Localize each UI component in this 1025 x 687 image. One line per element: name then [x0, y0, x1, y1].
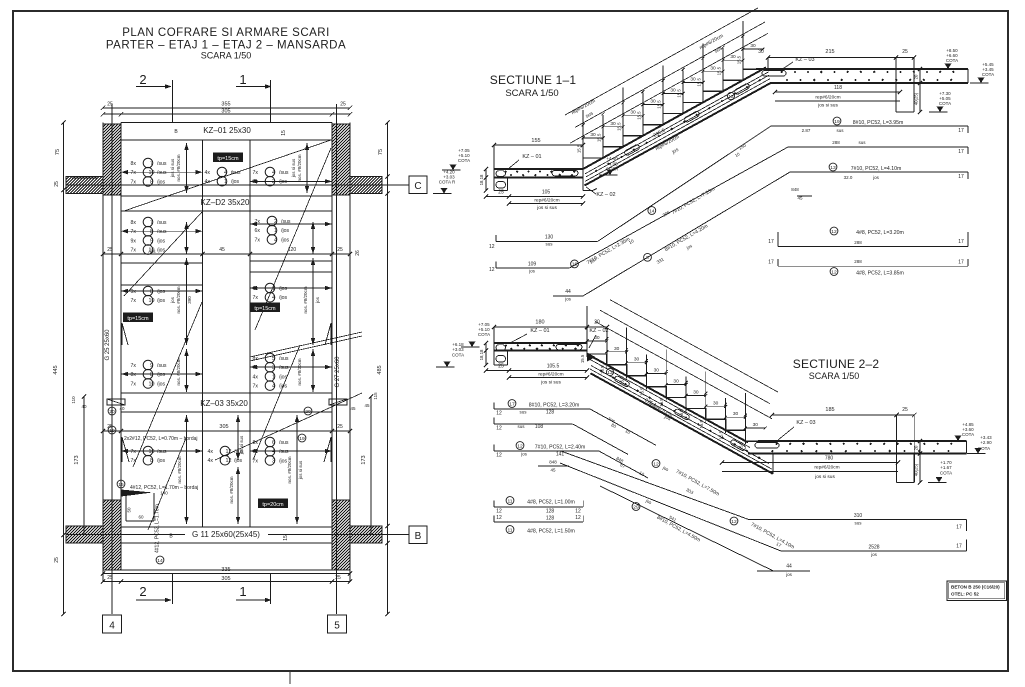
- svg-text:15.5: 15.5: [717, 66, 722, 75]
- svg-text:25: 25: [107, 247, 113, 253]
- svg-text:/jos: /jos: [148, 249, 156, 254]
- svg-text:29: 29: [633, 504, 639, 510]
- svg-text:jos si sus: jos si sus: [298, 460, 303, 480]
- svg-text:30: 30: [710, 65, 716, 71]
- svg-text:/sus: /sus: [279, 170, 289, 176]
- svg-text:4: 4: [272, 449, 275, 455]
- svg-text:10: 10: [149, 449, 155, 455]
- svg-text:17: 17: [956, 525, 962, 531]
- sec1 left dim 18,18: [485, 169, 487, 191]
- svg-text:75: 75: [55, 149, 61, 155]
- plan diagonal right flight: [253, 345, 300, 460]
- svg-text:173: 173: [361, 455, 367, 464]
- svg-text:KZ – 01: KZ – 01: [522, 154, 541, 160]
- sec1 flight joint wedge: [582, 169, 584, 191]
- svg-text:/jos: /jos: [157, 238, 165, 244]
- grid axis 4 vertical: [111, 104, 113, 614]
- svg-text:8x: 8x: [253, 356, 259, 362]
- grid axis 5 vertical: [336, 104, 338, 614]
- svg-text:/sus: /sus: [157, 220, 167, 226]
- corner bracket left flight end: [122, 437, 129, 462]
- svg-text:17: 17: [958, 149, 964, 155]
- sec2 flight circled ref: [606, 368, 613, 375]
- svg-text:17: 17: [768, 260, 774, 266]
- svg-text:/sus: /sus: [279, 449, 289, 455]
- sec1 upper column: [895, 83, 897, 112]
- flight subdivision lines: [121, 262, 203, 264]
- svg-text:4: 4: [272, 170, 275, 176]
- svg-text:12: 12: [226, 458, 232, 464]
- svg-text:45: 45: [219, 247, 225, 253]
- sec2 rebar loop in slab: [556, 344, 582, 350]
- sec1 lower landing slab: [494, 168, 583, 170]
- sec1 bar L1 (19): [496, 240, 598, 242]
- sec2 dim 185: [772, 414, 914, 416]
- beam KZ-01: [121, 122, 332, 124]
- sec1 column KZ-01 below slab: [493, 169, 495, 191]
- svg-text:/jos: /jos: [157, 248, 165, 254]
- svg-text:128: 128: [546, 509, 555, 515]
- svg-text:COTA: COTA: [452, 353, 464, 358]
- svg-text:B: B: [415, 531, 422, 542]
- sec1 dim 20/40(25) right: [919, 69, 921, 112]
- svg-text:4#8, PC52, L=1.50m: 4#8, PC52, L=1.50m: [527, 529, 575, 535]
- sec1 flight circled ref: [727, 92, 734, 99]
- svg-text:17: 17: [768, 239, 774, 245]
- sec1 ladder chain lines: [570, 33, 768, 143]
- sec2 bar R2: [494, 423, 573, 425]
- svg-text:105: 105: [542, 190, 551, 196]
- svg-text:185: 185: [825, 407, 834, 413]
- mid dimension line 45/120: [103, 253, 350, 255]
- svg-text:50: 50: [127, 507, 132, 513]
- svg-text:17: 17: [958, 260, 964, 266]
- svg-text:7: 7: [150, 161, 153, 167]
- svg-text:848: 848: [791, 187, 799, 192]
- svg-text:/jos: /jos: [157, 372, 165, 378]
- sec1 dim 215: [768, 57, 914, 59]
- svg-text:288: 288: [854, 240, 862, 245]
- svg-text:4: 4: [109, 621, 115, 632]
- axis B box: [409, 526, 427, 544]
- svg-text:17: 17: [958, 174, 964, 180]
- svg-text:tp=20cm: tp=20cm: [262, 502, 284, 508]
- svg-text:25: 25: [902, 407, 908, 413]
- svg-text:12: 12: [496, 426, 502, 432]
- svg-text:7x: 7x: [131, 170, 137, 176]
- svg-text:+2.90: +2.90: [980, 440, 992, 445]
- svg-text:115: 115: [373, 392, 378, 400]
- sec2 flight slab top line: [587, 354, 748, 443]
- plan outline verticals: [120, 123, 122, 571]
- svg-text:2x2#12, PC52, L=0.70m – bordaj: 2x2#12, PC52, L=0.70m – bordaj: [124, 436, 198, 442]
- svg-text:305: 305: [219, 424, 228, 430]
- svg-text:7x: 7x: [253, 295, 259, 301]
- svg-text:15.5: 15.5: [679, 409, 684, 418]
- sec2 joint wedge: [587, 353, 596, 362]
- svg-text:25: 25: [335, 575, 341, 581]
- svg-text:26: 26: [355, 250, 361, 256]
- sec1 dim 118: [775, 91, 900, 93]
- sec2 flight inner line b: [590, 369, 772, 469]
- svg-text:nos. #8/20cm: nos. #8/20cm: [303, 286, 308, 313]
- svg-text:2: 2: [139, 72, 146, 87]
- svg-text:4#8, PC52, L=3.20m: 4#8, PC52, L=3.20m: [856, 230, 904, 236]
- svg-text:/sus: /sus: [279, 356, 289, 362]
- svg-text:4: 4: [272, 295, 275, 301]
- svg-text:+1.67: +1.67: [940, 465, 952, 470]
- svg-text:7x: 7x: [131, 363, 137, 369]
- svg-text:30: 30: [730, 54, 736, 60]
- svg-text:1: 1: [272, 374, 275, 380]
- beam KZ-03: [121, 392, 332, 394]
- svg-text:14: 14: [649, 208, 655, 214]
- svg-text:8: 8: [150, 289, 153, 295]
- svg-text:rep#6/20cm: rep#6/20cm: [534, 198, 559, 204]
- svg-text:30: 30: [758, 49, 764, 55]
- svg-text:75: 75: [378, 149, 384, 155]
- svg-text:11: 11: [507, 498, 512, 504]
- svg-text:25: 25: [54, 557, 60, 563]
- sec2 flight slab bottom line: [591, 373, 774, 474]
- svg-text:jos: jos: [520, 452, 528, 457]
- svg-text:jos: jos: [785, 572, 793, 577]
- svg-text:12: 12: [496, 515, 502, 521]
- svg-text:120: 120: [288, 247, 297, 253]
- svg-text:288: 288: [832, 140, 840, 145]
- lower dimension line 305: [103, 430, 350, 432]
- svg-text:30: 30: [590, 132, 596, 138]
- svg-text:20: 20: [109, 409, 115, 415]
- svg-text:SECTIUNE 1–1: SECTIUNE 1–1: [490, 73, 577, 87]
- vertical arrow dims right flight: [306, 143, 308, 193]
- svg-text:15.5: 15.5: [657, 100, 662, 109]
- tp=15cm box left: [124, 313, 153, 322]
- svg-text:C: C: [414, 181, 421, 192]
- svg-text:7x: 7x: [253, 170, 259, 176]
- sec1 flight slab bottom line: [585, 83, 772, 186]
- svg-text:15.5: 15.5: [597, 133, 602, 142]
- svg-text:+4.40: +4.40: [606, 156, 618, 161]
- svg-text:10: 10: [149, 170, 155, 176]
- svg-text:30: 30: [630, 110, 636, 116]
- material info box: [947, 581, 1007, 601]
- svg-text:1: 1: [224, 179, 227, 185]
- svg-text:/jos: /jos: [234, 458, 242, 464]
- svg-text:jos: jos: [528, 269, 536, 274]
- svg-text:1: 1: [272, 286, 275, 292]
- svg-text:/sus: /sus: [279, 440, 289, 446]
- svg-text:30: 30: [733, 411, 739, 417]
- svg-text:108: 108: [535, 424, 544, 430]
- svg-text:17: 17: [956, 544, 962, 550]
- svg-text:7x: 7x: [131, 298, 137, 304]
- svg-text:30: 30: [673, 379, 679, 385]
- svg-text:/jos: /jos: [279, 286, 287, 292]
- svg-text:15.5: 15.5: [637, 111, 642, 120]
- svg-text:45: 45: [550, 468, 556, 473]
- svg-text:7: 7: [150, 220, 153, 226]
- svg-text:rep#6/20cm: rep#6/20cm: [538, 372, 563, 378]
- svg-text:8: 8: [150, 179, 153, 185]
- svg-text:9: 9: [150, 238, 153, 244]
- sec1 rebar loop upper slab: [762, 71, 786, 77]
- svg-text:8x: 8x: [131, 161, 137, 167]
- svg-text:13: 13: [830, 165, 836, 171]
- svg-text:25: 25: [337, 247, 343, 253]
- svg-text:SCARA 1/50: SCARA 1/50: [505, 88, 558, 99]
- right dim 173: [370, 397, 372, 536]
- svg-text:sus: sus: [836, 128, 844, 133]
- svg-text:COTA: COTA: [946, 58, 958, 63]
- svg-text:/jos: /jos: [279, 179, 287, 185]
- flight separator verticals: [202, 140, 204, 527]
- svg-text:SCARA 1/50: SCARA 1/50: [201, 51, 252, 61]
- sec2 dim 180: [494, 326, 607, 328]
- plan diagonal right flight upper: [255, 148, 331, 330]
- svg-text:15: 15: [283, 535, 289, 541]
- sec2 diagonal bar DB (29): [560, 463, 781, 551]
- svg-text:jos si sus: jos si sus: [536, 205, 557, 211]
- svg-text:9x: 9x: [131, 238, 137, 244]
- beam KZ-D2: [121, 195, 332, 197]
- sec1 bar L2: [496, 267, 570, 269]
- sec2 rebar loop bottom slab: [755, 443, 779, 449]
- svg-text:17: 17: [958, 239, 964, 245]
- svg-text:45: 45: [364, 403, 370, 408]
- svg-text:25: 25: [902, 49, 908, 55]
- bottom dimension line 305b: [103, 581, 350, 583]
- svg-text:17: 17: [509, 401, 515, 407]
- svg-text:105.5: 105.5: [547, 364, 560, 370]
- svg-text:sus: sus: [854, 521, 862, 526]
- svg-text:8x: 8x: [131, 372, 137, 378]
- svg-text:7x: 7x: [131, 179, 137, 185]
- svg-text:310: 310: [854, 513, 863, 519]
- svg-text:nos. #8/20cm: nos. #8/20cm: [176, 286, 181, 313]
- sec1 bar L3 (13): [553, 295, 583, 297]
- svg-text:15.5: 15.5: [699, 420, 704, 429]
- svg-text:jos: jos: [170, 296, 175, 304]
- svg-text:+3.03: +3.03: [452, 347, 464, 352]
- svg-text:780: 780: [825, 456, 834, 462]
- left dim line 445: [63, 123, 65, 615]
- sec2 step dimension ladder: [586, 306, 588, 357]
- svg-text:4#8, PC52, L=3.85m: 4#8, PC52, L=3.85m: [856, 271, 904, 277]
- sec2 bottom landing slab: [758, 440, 967, 442]
- corner bracket right mid: [325, 323, 331, 345]
- svg-text:8x: 8x: [131, 220, 137, 226]
- svg-text:12: 12: [496, 453, 502, 459]
- svg-text:nos. #8/20cm: nos. #8/20cm: [287, 456, 292, 483]
- sec1 dim 25/105: [486, 196, 583, 198]
- svg-text:/jos: /jos: [279, 384, 287, 390]
- svg-text:30: 30: [594, 335, 600, 341]
- svg-text:/sus: /sus: [157, 161, 167, 167]
- svg-text:3: 3: [272, 365, 275, 371]
- svg-text:7x: 7x: [131, 449, 137, 455]
- svg-text:44: 44: [565, 289, 571, 295]
- sec1 flight inner line a: [585, 72, 769, 174]
- svg-text:G 27 25x60: G 27 25x60: [335, 356, 341, 388]
- svg-text:/jos: /jos: [157, 381, 165, 387]
- svg-text:sus: sus: [519, 410, 527, 415]
- svg-text:30: 30: [634, 357, 640, 363]
- svg-text:2: 2: [139, 584, 146, 599]
- svg-text:25: 25: [498, 364, 504, 370]
- svg-text:128: 128: [546, 516, 555, 522]
- svg-text:40: 40: [81, 404, 87, 409]
- svg-text:/sus: /sus: [234, 449, 244, 455]
- svg-text:COTA R: COTA R: [439, 180, 456, 185]
- svg-text:5: 5: [334, 621, 340, 632]
- svg-text:109: 109: [528, 262, 537, 268]
- svg-text:7#10, PC52, L=2.40m: 7#10, PC52, L=2.40m: [535, 445, 586, 451]
- sec2 diagonal bar DA (12): [560, 451, 749, 520]
- svg-text:45: 45: [797, 196, 803, 201]
- svg-text:4#12, PC52, L=1.70m: 4#12, PC52, L=1.70m: [155, 504, 161, 553]
- svg-text:jos si sus: jos si sus: [814, 474, 835, 480]
- svg-text:11: 11: [507, 527, 512, 533]
- svg-text:COTA: COTA: [940, 471, 952, 476]
- top dimension line 305: [103, 113, 350, 115]
- svg-text:335: 335: [221, 567, 230, 573]
- svg-text:COTA: COTA: [962, 432, 974, 437]
- svg-text:jos si sus: jos si sus: [540, 380, 561, 386]
- svg-text:2528: 2528: [868, 545, 879, 551]
- sec1 flight rebar dotted: [586, 75, 769, 177]
- tp=15cm box top center: [214, 153, 243, 162]
- svg-text:130: 130: [545, 235, 554, 241]
- svg-text:15: 15: [281, 130, 287, 136]
- svg-text:4x: 4x: [205, 170, 211, 176]
- circled ref 20 left: [108, 407, 116, 415]
- svg-text:KZ–D2 35x20: KZ–D2 35x20: [201, 198, 250, 207]
- svg-text:/sus: /sus: [157, 229, 167, 235]
- svg-text:8: 8: [150, 229, 153, 235]
- sec1 stair steps sawtooth: [583, 69, 763, 169]
- svg-text:jos si sus: jos si sus: [817, 103, 838, 109]
- svg-text:/jos: /jos: [279, 295, 287, 301]
- svg-text:7x: 7x: [131, 229, 137, 235]
- sec2 dim 780: [722, 462, 898, 464]
- svg-text:9x: 9x: [131, 289, 137, 295]
- svg-text:12: 12: [575, 509, 581, 515]
- plan diagonal left flight lower: [148, 438, 186, 530]
- sec2 bar R3 (12): [516, 442, 524, 450]
- svg-text:305: 305: [221, 576, 230, 582]
- svg-text:25: 25: [107, 575, 113, 581]
- svg-text:8#10, PC52, L=3.20m: 8#10, PC52, L=3.20m: [529, 403, 580, 409]
- svg-text:KZ–03 35x20: KZ–03 35x20: [200, 399, 248, 408]
- svg-text:KZ – 02: KZ – 02: [596, 192, 615, 198]
- svg-text:3: 3: [272, 458, 275, 464]
- svg-text:7x: 7x: [131, 248, 137, 254]
- plan diagonal top landing: [124, 140, 331, 211]
- sec2 bottom column: [896, 454, 898, 483]
- svg-text:sus: sus: [858, 140, 866, 145]
- svg-text:/jos: /jos: [281, 228, 289, 234]
- tp=15cm box right flight: [251, 303, 280, 312]
- svg-text:15.5: 15.5: [620, 376, 625, 385]
- svg-text:140: 140: [160, 491, 168, 496]
- svg-text:/sus: /sus: [157, 170, 167, 176]
- svg-text:SCARA 1/50: SCARA 1/50: [809, 371, 860, 381]
- sec2 bar R4 (11): [506, 497, 514, 505]
- svg-text:288: 288: [854, 259, 862, 264]
- sec2 flight rebar dotted: [591, 366, 769, 464]
- circled ref 19: [108, 426, 116, 434]
- svg-text:SECTIUNE 2–2: SECTIUNE 2–2: [793, 357, 880, 371]
- svg-text:KZ – 03: KZ – 03: [796, 420, 815, 426]
- svg-text:jos si sus: jos si sus: [170, 158, 175, 178]
- svg-text:19: 19: [834, 119, 840, 125]
- svg-text:445: 445: [53, 365, 59, 374]
- flight start wedge marker: [121, 490, 153, 497]
- svg-text:/sus: /sus: [157, 363, 167, 369]
- svg-text:4x: 4x: [253, 374, 259, 380]
- svg-text:44: 44: [786, 564, 792, 570]
- plan diagonal KZ-03: [215, 393, 362, 460]
- svg-text:30: 30: [690, 76, 696, 82]
- svg-text:12: 12: [496, 411, 502, 417]
- svg-text:12: 12: [831, 229, 837, 235]
- svg-text:390: 390: [187, 296, 192, 304]
- sec2 stair steps sawtooth: [587, 343, 765, 441]
- svg-text:30: 30: [614, 346, 620, 352]
- svg-text:KZ–01 25x30: KZ–01 25x30: [203, 126, 251, 135]
- svg-text:12: 12: [731, 519, 737, 525]
- svg-text:12: 12: [496, 509, 502, 515]
- svg-text:jos: jos: [315, 296, 320, 304]
- svg-text:nos. #8/20cm: nos. #8/20cm: [297, 154, 302, 181]
- svg-text:2: 2: [272, 179, 275, 185]
- svg-text:5: 5: [272, 356, 275, 362]
- circled ref 15: [117, 480, 125, 488]
- svg-text:4#8, PC52, L=1.00m: 4#8, PC52, L=1.00m: [527, 500, 575, 506]
- svg-text:7x: 7x: [131, 381, 137, 387]
- svg-text:jos: jos: [564, 297, 572, 302]
- svg-text:20: 20: [305, 409, 311, 415]
- sec2 flight joint: [586, 343, 588, 354]
- svg-text:15.5: 15.5: [738, 441, 743, 450]
- svg-text:155: 155: [531, 138, 540, 144]
- sec1 straight bar L8 (12): [778, 265, 968, 267]
- svg-text:COTA: COTA: [478, 332, 490, 337]
- svg-text:30: 30: [670, 88, 676, 94]
- svg-text:sus: sus: [517, 424, 525, 429]
- svg-text:45: 45: [350, 406, 356, 411]
- svg-text:8x: 8x: [253, 440, 259, 446]
- sec2 in-band rebar loops: [614, 375, 631, 387]
- svg-text:tp=15cm: tp=15cm: [217, 156, 239, 162]
- svg-text:18,18: 18,18: [479, 349, 484, 360]
- svg-text:7x: 7x: [131, 458, 137, 464]
- svg-text:PLAN COFRARE SI ARMARE SCA: PLAN COFRARE SI ARMARE SCARI: [122, 27, 330, 39]
- grid bubble 4: [103, 615, 122, 633]
- corner bracket left mid: [122, 323, 128, 345]
- svg-text:BETON B 250 (C16/20): BETON B 250 (C16/20): [951, 585, 1000, 590]
- svg-text:COTA: COTA: [939, 101, 951, 106]
- svg-text:OTEL: PC 52: OTEL: PC 52: [951, 592, 979, 597]
- svg-text:/jos: /jos: [279, 458, 287, 464]
- sec1 bar tail 848/45: [797, 195, 812, 197]
- svg-text:215: 215: [825, 49, 834, 55]
- sec1 upper landing slab: [756, 68, 968, 70]
- plan diagonal pair crossing right flight: [250, 332, 362, 357]
- step hook symbol left: [107, 399, 125, 405]
- sec1 step dimension ladder: [582, 110, 584, 161]
